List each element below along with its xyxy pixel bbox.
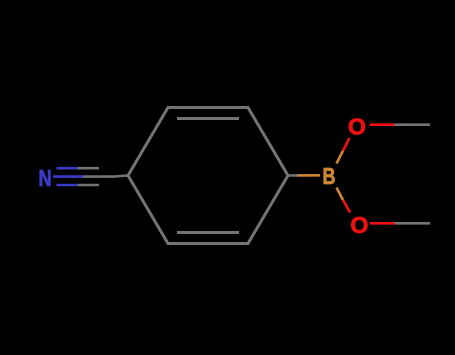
triple bond C#N lower line xyxy=(57,184,78,187)
bond B to upper O : boron half xyxy=(337,151,344,164)
bond ring to B : carbon half xyxy=(288,174,298,177)
bond upper O to methyl : carbon half xyxy=(395,123,431,126)
svg-text:O: O xyxy=(351,212,369,238)
bond B to upper O : oxygen half xyxy=(343,138,350,151)
bond B to lower O : oxygen half xyxy=(343,200,350,213)
bond lower O to methyl : carbon half xyxy=(395,222,431,225)
benzene ring (hexagon C1-C6) xyxy=(128,108,288,244)
bond upper O to methyl : oxygen half xyxy=(370,123,395,126)
benzene inner double bond bottom xyxy=(177,231,239,234)
svg-text:N: N xyxy=(39,166,52,192)
triple bond C#N middle line xyxy=(53,175,83,178)
bond ring to B : boron half xyxy=(298,174,321,177)
svg-text:B: B xyxy=(322,164,335,190)
triple bond C#N upper line xyxy=(57,167,78,170)
svg-text:O: O xyxy=(348,114,366,140)
bond B to lower O : boron half xyxy=(337,188,344,201)
bond nitrile-C to ring xyxy=(114,176,129,177)
benzene inner double bond top xyxy=(177,117,239,120)
bond lower O to methyl : oxygen half xyxy=(370,222,395,225)
